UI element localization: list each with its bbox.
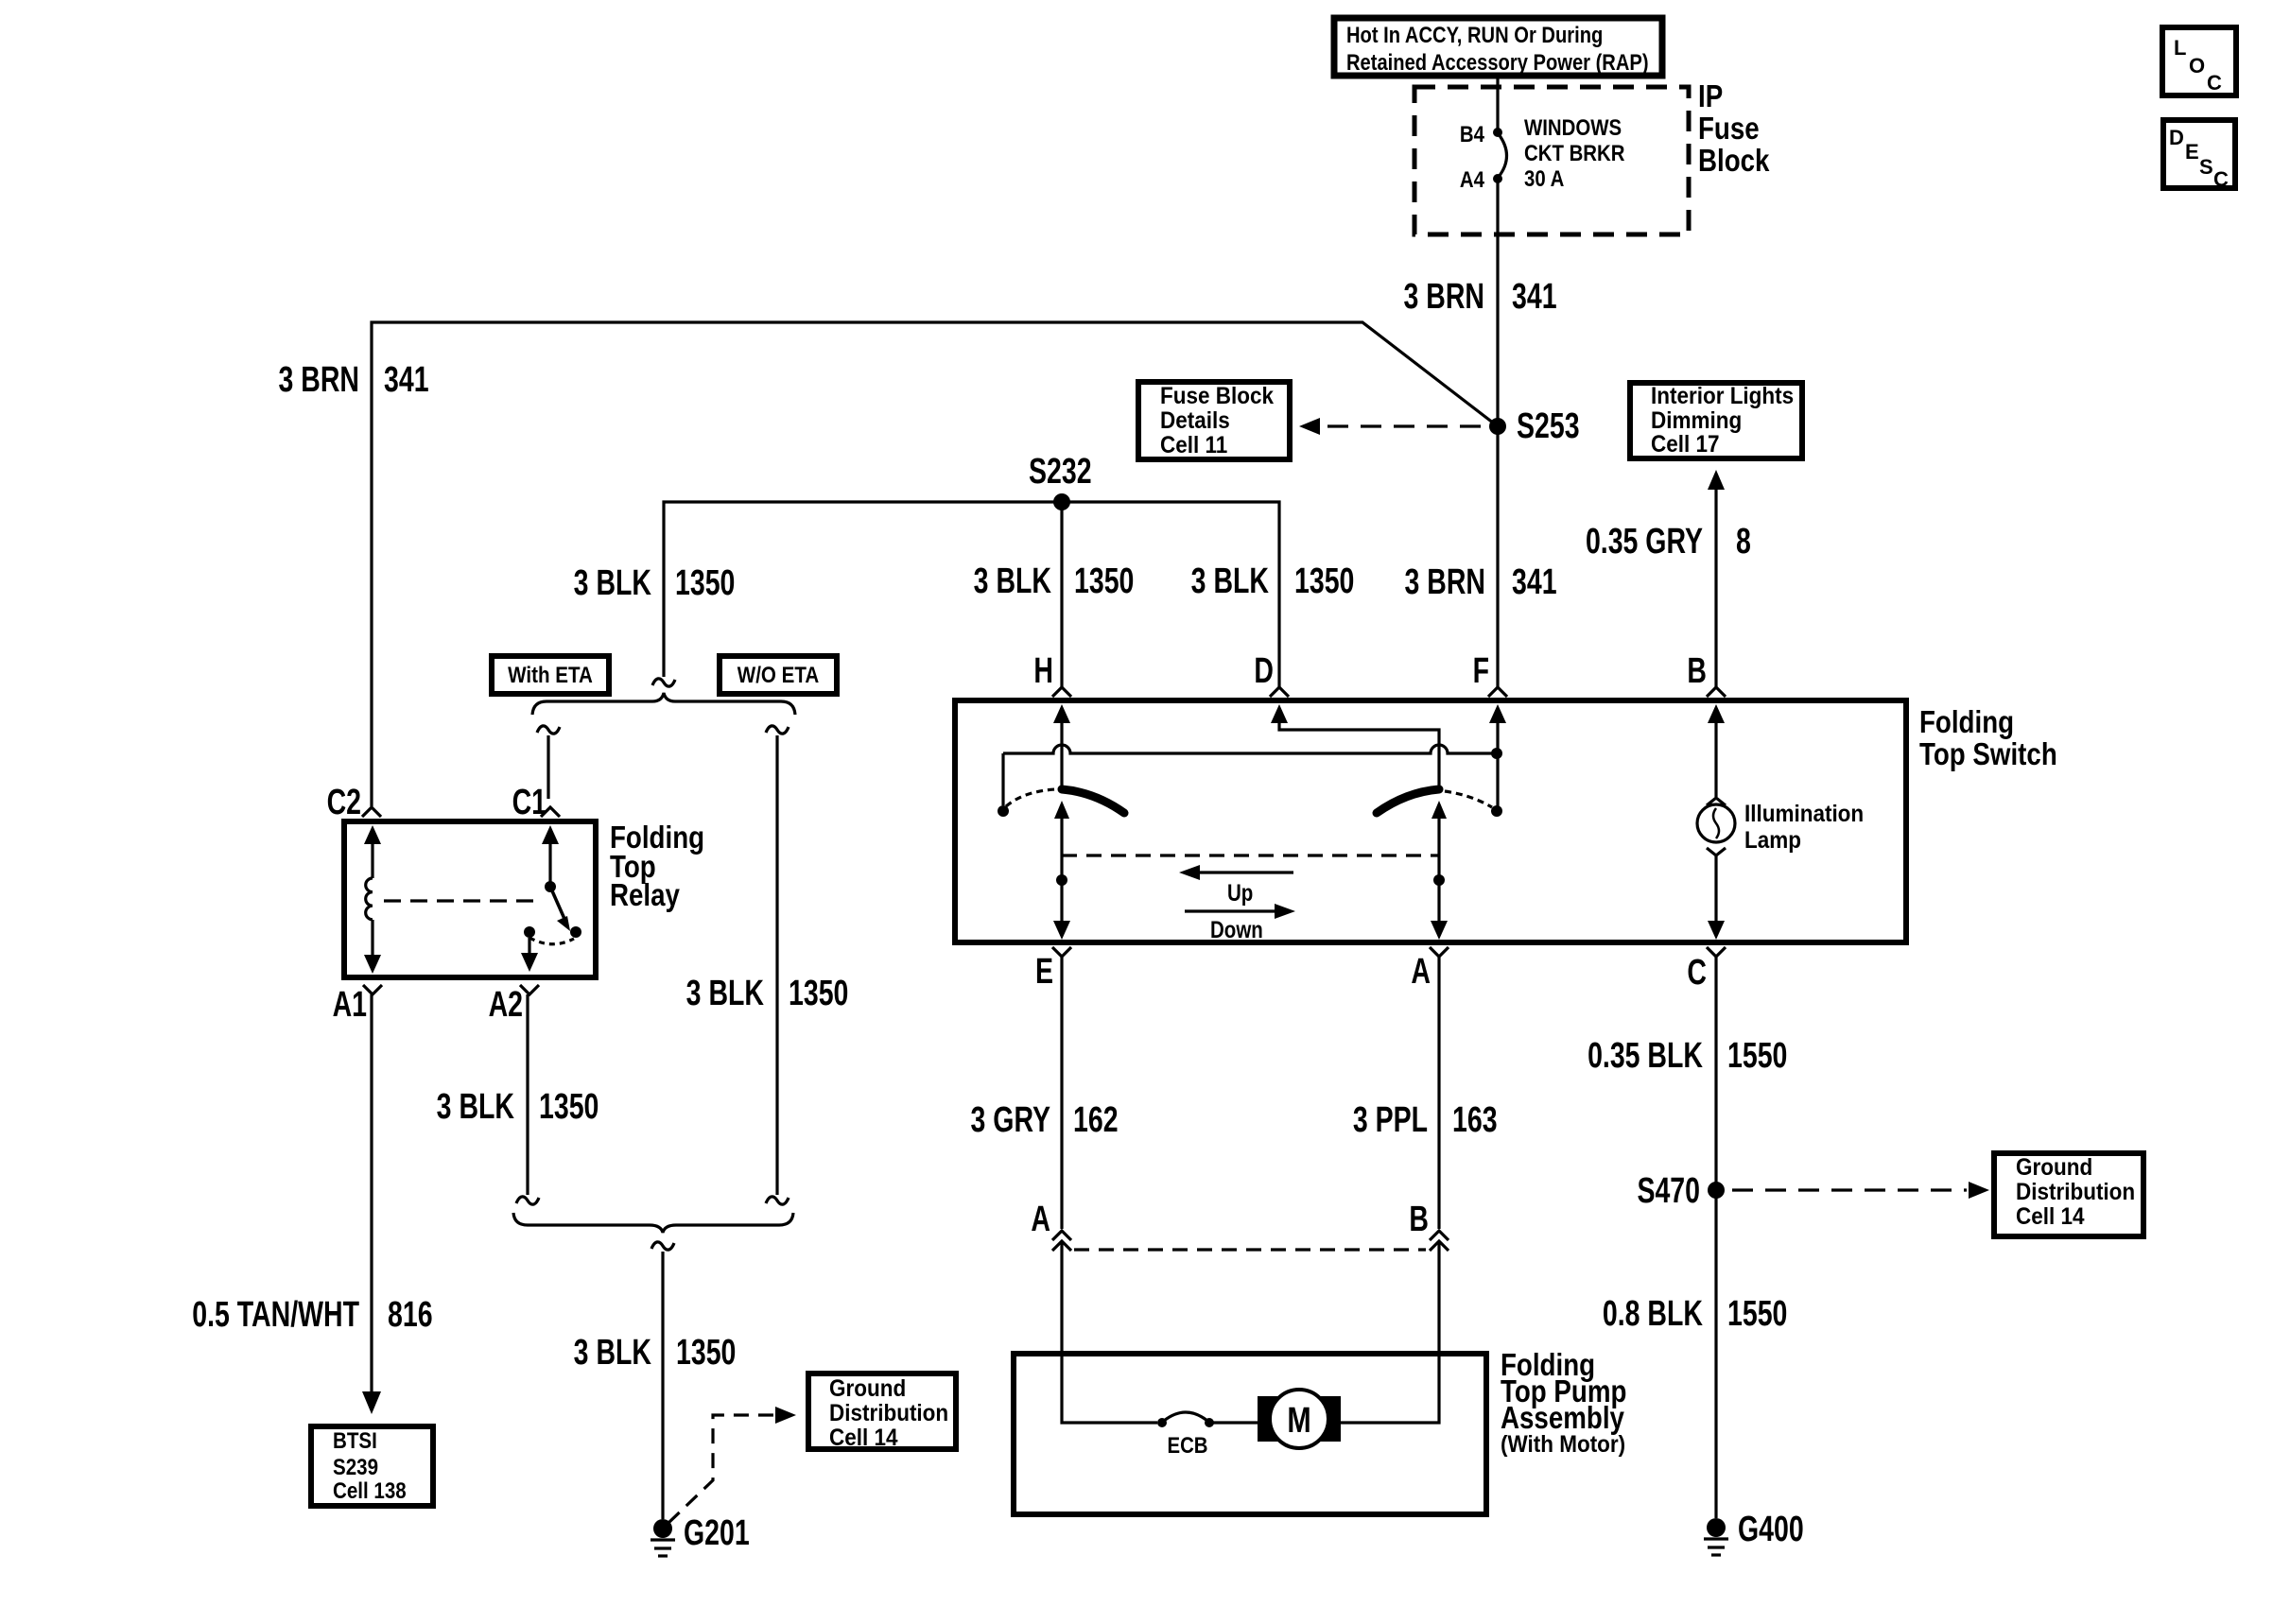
switch pin D arrow + jumper — [1271, 704, 1439, 789]
svg-text:3 BLK: 3 BLK — [437, 1087, 514, 1127]
wire label 3 BLK 1350 (branch col) — [574, 563, 736, 603]
wire label 3 BLK 1350 (A2 col) — [437, 1087, 599, 1127]
wire: ECB to motor — [1209, 1421, 1265, 1424]
wire: S232 horizontal — [664, 502, 1279, 687]
wire: S232 to H — [1060, 502, 1063, 687]
svg-text:O: O — [2189, 54, 2205, 78]
Fuse Block Details callout box — [1138, 382, 1290, 459]
ECB circuit breaker — [1157, 1412, 1214, 1458]
connector B (pump) — [1409, 1200, 1449, 1251]
ground G400 — [1704, 1510, 1804, 1555]
connector C2 — [327, 783, 381, 822]
wire: C down to G400 — [1714, 957, 1717, 1518]
connector H — [1033, 651, 1071, 697]
wire break squiggle above brace — [652, 679, 675, 686]
connector A2 — [489, 985, 539, 1025]
wire label 3 BLK 1350 (W/O col) — [686, 974, 849, 1013]
wire label 0.5 TAN/WHT 816 — [192, 1295, 432, 1335]
wire label 3 GRY 162 — [971, 1100, 1119, 1140]
connector C (switch out) — [1687, 947, 1726, 993]
arrow up to Interior Lights — [1708, 470, 1725, 687]
svg-text:B: B — [1687, 651, 1707, 691]
ground G201 — [651, 1513, 750, 1556]
svg-text:Folding: Folding — [1919, 705, 2014, 740]
right rocker contact — [1377, 789, 1439, 813]
DESC box — [2163, 120, 2235, 191]
svg-text:163: 163 — [1452, 1100, 1498, 1140]
W/O ETA option box — [720, 656, 837, 694]
svg-text:WINDOWS: WINDOWS — [1524, 114, 1622, 140]
relay A2 leg — [521, 938, 538, 972]
switch pole A — [1431, 801, 1448, 940]
right throw arc (dashed) — [1445, 791, 1492, 807]
svg-text:Ground: Ground — [829, 1375, 906, 1402]
svg-text:A1: A1 — [333, 985, 367, 1025]
wire label 3 BLK 1350 (G201 col) — [574, 1333, 737, 1373]
svg-text:0.35 BLK: 0.35 BLK — [1588, 1036, 1703, 1076]
wire: With ETA branch — [537, 726, 560, 799]
svg-text:B4: B4 — [1460, 121, 1485, 147]
option brace (upper) — [532, 693, 795, 715]
svg-text:E: E — [2185, 140, 2199, 164]
svg-text:1350: 1350 — [1074, 561, 1134, 601]
wire label 3 BRN 341 (F col) — [1404, 562, 1556, 602]
svg-text:Cell 14: Cell 14 — [2016, 1203, 2085, 1230]
wire label 3 BRN 341 (left) — [278, 360, 428, 400]
svg-text:1350: 1350 — [539, 1087, 599, 1127]
wire A4 to S253 — [1496, 179, 1499, 426]
svg-text:162: 162 — [1073, 1100, 1119, 1140]
svg-text:S232: S232 — [1029, 452, 1092, 492]
power source label box — [1334, 18, 1662, 76]
svg-text:F: F — [1473, 651, 1489, 691]
svg-text:M: M — [1287, 1401, 1310, 1441]
svg-text:341: 341 — [384, 360, 429, 400]
wire label 0.35 GRY 8 — [1586, 522, 1751, 561]
svg-text:Cell 11: Cell 11 — [1160, 432, 1227, 458]
svg-text:Ground: Ground — [2016, 1154, 2092, 1181]
svg-text:E: E — [1035, 952, 1053, 992]
wire label 3 BLK 1350 (H col) — [974, 561, 1135, 601]
svg-text:D: D — [2169, 126, 2184, 149]
relay coil — [366, 878, 373, 920]
wire: A1 down to BTSI — [362, 994, 381, 1414]
relay switch common C1 — [542, 825, 559, 892]
svg-text:341: 341 — [1512, 277, 1557, 317]
svg-text:(With Motor): (With Motor) — [1501, 1431, 1625, 1458]
wire label 0.35 BLK 1550 — [1588, 1036, 1787, 1076]
wire label 0.8 BLK 1550 — [1603, 1294, 1787, 1334]
svg-text:Down: Down — [1210, 916, 1263, 942]
svg-text:A4: A4 — [1460, 166, 1485, 192]
wire: W/O ETA branch — [766, 726, 789, 1204]
svg-text:S470: S470 — [1637, 1171, 1700, 1211]
BTSI callout box — [311, 1426, 433, 1506]
relay box (Folding Top Relay) — [344, 821, 596, 977]
Ground Distribution callout box (left) — [808, 1373, 956, 1451]
Ground Distribution callout box (right) — [1994, 1153, 2143, 1236]
wire label 3 BRN 341 (upper) — [1403, 277, 1556, 317]
svg-text:3 BRN: 3 BRN — [1404, 562, 1485, 602]
With ETA option box — [492, 656, 609, 694]
left rocker contact — [1062, 789, 1124, 813]
svg-text:0.8 BLK: 0.8 BLK — [1603, 1294, 1703, 1334]
relay coil pin C2 arrow — [364, 825, 381, 878]
svg-text:Illumination: Illumination — [1744, 801, 1864, 827]
svg-text:3 BRN: 3 BRN — [1403, 277, 1484, 317]
dashed arrow S253 to Fuse Block Details — [1299, 418, 1481, 435]
svg-text:341: 341 — [1512, 562, 1557, 602]
svg-text:G201: G201 — [684, 1513, 750, 1553]
svg-text:Cell 14: Cell 14 — [829, 1425, 898, 1451]
connector B — [1687, 651, 1726, 697]
svg-text:Cell 17: Cell 17 — [1651, 431, 1719, 458]
connector E — [1035, 947, 1071, 992]
wire: main 3 BRN 341 run — [372, 322, 1498, 806]
svg-text:Lamp: Lamp — [1744, 827, 1801, 854]
svg-text:1350: 1350 — [676, 1333, 736, 1373]
svg-text:B: B — [1409, 1200, 1429, 1239]
wire: pump A into ECB — [1062, 1241, 1157, 1423]
svg-text:CKT BRKR: CKT BRKR — [1524, 140, 1624, 165]
svg-text:Fuse Block: Fuse Block — [1160, 383, 1275, 409]
svg-text:C: C — [2207, 71, 2222, 95]
svg-text:Relay: Relay — [610, 878, 680, 913]
Interior Lights Dimming callout box — [1630, 383, 1802, 458]
wire label 3 PPL 163 — [1353, 1100, 1498, 1140]
illumination lamp — [1697, 798, 1864, 940]
svg-text:1350: 1350 — [675, 563, 735, 603]
svg-text:Retained Accessory Power (RAP): Retained Accessory Power (RAP) — [1346, 49, 1649, 75]
connector A1 — [333, 985, 382, 1025]
svg-text:Fuse: Fuse — [1698, 112, 1760, 147]
svg-text:3 BLK: 3 BLK — [974, 561, 1051, 601]
relay contacts — [524, 926, 535, 938]
svg-text:S253: S253 — [1517, 406, 1580, 446]
svg-text:C: C — [1687, 953, 1707, 993]
motor M — [1258, 1390, 1341, 1448]
svg-text:S239: S239 — [333, 1454, 378, 1479]
switch pin B arrow — [1708, 704, 1725, 797]
node S470 — [1637, 1171, 1725, 1211]
Up arrow — [1179, 865, 1293, 906]
svg-text:ECB: ECB — [1167, 1432, 1207, 1458]
relay coil link (dashed) — [384, 899, 535, 902]
relay throw arc (dashed) — [529, 938, 574, 944]
option brace (lower) — [513, 1213, 793, 1233]
switch pole E — [1053, 801, 1070, 940]
svg-text:W/O ETA: W/O ETA — [737, 662, 819, 687]
svg-text:S: S — [2199, 155, 2213, 179]
svg-text:30 A: 30 A — [1524, 165, 1564, 191]
svg-text:3 BLK: 3 BLK — [574, 563, 651, 603]
svg-text:0.35 GRY: 0.35 GRY — [1586, 522, 1703, 561]
svg-text:IP: IP — [1698, 79, 1723, 114]
wire into fuse block — [1496, 76, 1499, 132]
wire: motor to pump B — [1333, 1241, 1439, 1423]
wire label 3 BLK 1350 (D col) — [1191, 561, 1355, 601]
switch pin F arrow — [1489, 704, 1506, 817]
wire: F down from S253 — [1496, 426, 1499, 687]
svg-text:Hot In ACCY, RUN Or During: Hot In ACCY, RUN Or During — [1346, 22, 1603, 47]
svg-text:L: L — [2174, 36, 2186, 60]
svg-text:A2: A2 — [489, 985, 523, 1025]
svg-text:H: H — [1033, 651, 1053, 691]
svg-text:Top Switch: Top Switch — [1919, 737, 2057, 772]
wire: A2 down — [516, 994, 539, 1204]
connector A (pump) — [1031, 1200, 1071, 1251]
svg-text:Details: Details — [1160, 407, 1230, 434]
svg-text:D: D — [1254, 651, 1274, 691]
IP fuse block (dashed) — [1414, 79, 1770, 234]
svg-text:BTSI: BTSI — [333, 1427, 377, 1453]
wire: A to pump B — [1437, 957, 1440, 1229]
svg-text:Interior Lights: Interior Lights — [1651, 383, 1794, 409]
svg-text:3 GRY: 3 GRY — [971, 1100, 1050, 1140]
circuit breaker WINDOWS CKT BRKR 30 A — [1460, 114, 1625, 192]
connector A (switch out) — [1411, 947, 1449, 992]
switch bus with hops — [1003, 745, 1497, 753]
svg-text:816: 816 — [388, 1295, 433, 1335]
svg-text:A: A — [1411, 952, 1431, 992]
svg-text:3 BLK: 3 BLK — [686, 974, 764, 1013]
svg-text:3 PPL: 3 PPL — [1353, 1100, 1428, 1140]
svg-text:3 BLK: 3 BLK — [574, 1333, 651, 1373]
switch box (Folding Top Switch) — [955, 700, 1906, 942]
svg-text:Block: Block — [1698, 144, 1770, 179]
svg-text:Cell 138: Cell 138 — [333, 1477, 407, 1503]
relay coil pin A1 arrow — [364, 920, 381, 974]
svg-text:With ETA: With ETA — [508, 662, 593, 687]
svg-text:Up: Up — [1227, 879, 1253, 906]
connector D — [1254, 651, 1289, 697]
svg-text:Distribution: Distribution — [2016, 1179, 2135, 1205]
svg-text:1350: 1350 — [789, 974, 848, 1013]
wire: E to pump A — [1060, 957, 1063, 1229]
svg-text:C: C — [2213, 167, 2229, 191]
svg-text:0.5 TAN/WHT: 0.5 TAN/WHT — [192, 1295, 359, 1335]
svg-text:C2: C2 — [327, 783, 361, 822]
pump box (Folding Top Pump Assembly) — [1014, 1354, 1486, 1514]
svg-text:3 BLK: 3 BLK — [1191, 561, 1269, 601]
node S253 — [1489, 406, 1580, 446]
svg-text:1550: 1550 — [1727, 1294, 1787, 1334]
connector C1 — [512, 783, 560, 822]
svg-text:1350: 1350 — [1294, 561, 1354, 601]
svg-text:3 BRN: 3 BRN — [278, 360, 359, 400]
svg-text:A: A — [1031, 1200, 1050, 1239]
svg-text:8: 8 — [1736, 522, 1751, 561]
node S232 — [1029, 452, 1092, 510]
connector F — [1473, 651, 1507, 697]
dashed arrow G201 to Ground Distribution — [668, 1407, 796, 1523]
left throw arc (dashed) — [1006, 789, 1055, 806]
switch pin H arrow — [1053, 704, 1070, 789]
dashed arrow S470 to Ground Distribution — [1732, 1182, 1989, 1199]
svg-text:G400: G400 — [1738, 1510, 1804, 1549]
svg-text:1550: 1550 — [1727, 1036, 1787, 1076]
rocker link (dashed) — [1062, 854, 1439, 856]
svg-text:Distribution: Distribution — [829, 1400, 948, 1426]
LOC box — [2162, 27, 2236, 95]
relay blade — [550, 887, 570, 931]
bus left drop — [998, 753, 1009, 817]
connector link (dashed) — [1074, 1248, 1426, 1251]
wire: joined ground run to G201 — [651, 1242, 674, 1519]
Down arrow — [1185, 904, 1295, 942]
